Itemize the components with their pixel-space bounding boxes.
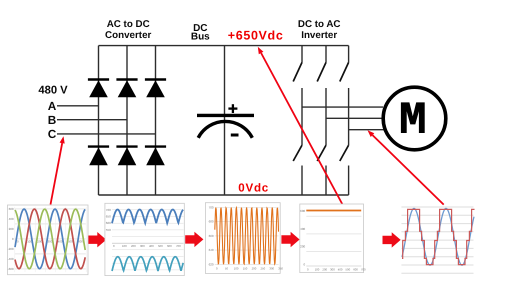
svg-text:-600: -600	[8, 267, 14, 271]
svg-text:A: A	[48, 99, 57, 113]
svg-text:300: 300	[269, 267, 274, 271]
svg-text:C: C	[48, 127, 57, 141]
svg-text:700: 700	[106, 208, 111, 212]
svg-text:100: 100	[234, 267, 239, 271]
svg-text:550: 550	[106, 228, 111, 232]
wire: rectifier leg 3 (phase C column)	[155, 46, 157, 195]
annotation arrow: output waveform to motor lines	[368, 130, 444, 204]
svg-text:500: 500	[68, 240, 73, 244]
svg-text:500: 500	[346, 267, 351, 271]
svg-text:700: 700	[176, 244, 181, 248]
transistor switch Q1 (inverter upper leg 1)	[293, 46, 302, 146]
capacitor C1 (DC bus, polarized)	[197, 115, 254, 137]
label: DC Bus	[191, 23, 210, 43]
svg-text:400: 400	[149, 244, 154, 248]
wire: rectifier leg 1 (phase A column)	[98, 46, 100, 195]
diode D3 (upper, phase C)	[145, 80, 166, 98]
svg-text:350: 350	[278, 267, 283, 271]
svg-text:620: 620	[209, 262, 214, 266]
svg-text:480 V: 480 V	[38, 84, 68, 96]
svg-text:-400: -400	[8, 257, 14, 261]
wire: inverter output V	[326, 117, 383, 119]
svg-text:50: 50	[225, 267, 229, 271]
capacitor C1 plus polarity mark	[228, 104, 237, 113]
svg-text:+650Vdc: +650Vdc	[228, 29, 284, 43]
svg-text:500: 500	[158, 244, 163, 248]
label: AC to DC Converter	[105, 19, 151, 41]
svg-text:700: 700	[209, 206, 214, 210]
svg-text:DC to AC: DC to AC	[298, 19, 341, 30]
flow arrow 2 (plot2 to plot3)	[185, 232, 203, 247]
plot 5: inverter PWM output and motor current chart	[401, 207, 474, 273]
wire: phase C input	[57, 133, 156, 135]
svg-text:600: 600	[106, 221, 111, 225]
svg-text:300: 300	[140, 244, 145, 248]
svg-text:400: 400	[338, 267, 343, 271]
diode D4 (lower, phase A)	[88, 147, 109, 166]
diode D1 (upper, phase A)	[88, 80, 109, 98]
motor M1 circle	[383, 87, 446, 150]
svg-text:B: B	[48, 113, 57, 127]
transistor switch Q6 (inverter lower leg 3)	[340, 145, 349, 195]
capacitor C1 minus polarity mark	[231, 134, 239, 137]
label: DC to AC Inverter	[298, 19, 341, 41]
wire: DC bus capacitor branch	[224, 46, 226, 195]
svg-text:600: 600	[78, 240, 83, 244]
svg-text:100: 100	[315, 267, 320, 271]
flow arrow 1 (plot1 to plot2)	[88, 232, 106, 247]
svg-text:Inverter: Inverter	[301, 30, 337, 41]
transistor switch Q5 (inverter lower leg 2)	[317, 145, 326, 195]
svg-text:600: 600	[353, 267, 358, 271]
wire: inverter output W	[349, 129, 384, 131]
annotation arrow: input waveform to phase C	[51, 136, 65, 204]
svg-text:250: 250	[261, 267, 266, 271]
svg-text:660: 660	[209, 234, 214, 238]
wire: +DC top bus	[99, 45, 349, 47]
svg-text:680: 680	[209, 220, 214, 224]
svg-text:-200: -200	[8, 247, 14, 251]
svg-text:200: 200	[322, 267, 327, 271]
plot 2: rectified DC with ripple waveform chart	[105, 203, 184, 275]
svg-text:Bus: Bus	[191, 32, 210, 43]
svg-text:600: 600	[167, 244, 172, 248]
svg-text:200: 200	[300, 245, 305, 249]
svg-text:Converter: Converter	[105, 30, 151, 41]
transistor switch Q3 (inverter upper leg 3)	[340, 46, 349, 146]
svg-text:0Vdc: 0Vdc	[238, 182, 269, 195]
wire: 0V bottom bus	[99, 194, 349, 196]
plot 4: filtered DC bus voltage chart (flat 650V)	[300, 204, 366, 273]
svg-text:150: 150	[243, 267, 248, 271]
svg-text:700: 700	[361, 267, 366, 271]
svg-text:400: 400	[300, 227, 305, 231]
svg-text:200: 200	[131, 244, 136, 248]
diode D5 (lower, phase B)	[116, 147, 137, 166]
svg-text:650: 650	[106, 215, 111, 219]
flow arrow 3 (plot3 to plot4)	[281, 232, 299, 247]
svg-text:600: 600	[9, 207, 14, 211]
transistor switch Q4 (inverter lower leg 1)	[293, 145, 302, 195]
annotation arrow: DC bus waveform to +650Vdc	[258, 47, 343, 205]
svg-text:600: 600	[300, 209, 305, 213]
svg-text:100: 100	[122, 244, 127, 248]
svg-text:640: 640	[209, 248, 214, 252]
svg-text:400: 400	[9, 217, 14, 221]
svg-text:200: 200	[252, 267, 257, 271]
wire: inverter output U	[302, 106, 383, 108]
svg-text:200: 200	[9, 227, 14, 231]
flow arrow 4 (plot4 to plot5)	[383, 232, 401, 247]
plot 3: DC bus ripple (unfiltered) waveform chart	[205, 203, 283, 274]
svg-text:300: 300	[330, 267, 335, 271]
wire: phase B input	[57, 119, 127, 121]
diode D6 (lower, phase C)	[145, 147, 166, 166]
svg-text:AC to DC: AC to DC	[107, 19, 150, 30]
plot 1: 480V three-phase input waveform chart	[8, 205, 89, 275]
transistor switch Q2 (inverter upper leg 2)	[317, 46, 326, 146]
wire: phase A input	[57, 105, 99, 107]
diode D2 (upper, phase B)	[116, 80, 137, 98]
wire: rectifier leg 2 (phase B column)	[126, 46, 128, 195]
motor M1 label M	[401, 102, 425, 133]
